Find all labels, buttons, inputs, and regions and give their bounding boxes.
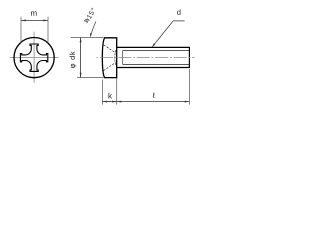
extension line dk top <box>71 37 104 39</box>
arrowhead k right <box>112 101 117 103</box>
text label m <box>31 11 37 15</box>
tiny CJK 'yaku' glyph <box>84 18 90 24</box>
thread root top <box>123 50 190 52</box>
arrowhead k left <box>103 101 108 103</box>
thread root bottom <box>123 64 190 66</box>
arrowhead dk top <box>80 38 82 43</box>
leader line 15deg <box>91 22 96 37</box>
hidden recess line lower <box>104 63 116 71</box>
arrowhead 15deg leader <box>90 33 92 37</box>
text label d <box>177 9 180 15</box>
shank top outline <box>117 46 190 48</box>
label approx 15 degrees <box>84 7 96 37</box>
arrowhead m right <box>43 19 48 21</box>
arrowhead l left <box>117 101 122 103</box>
extension line k left <box>101 80 103 105</box>
label d (thread diameter) <box>152 9 185 47</box>
extension line m left <box>20 17 22 43</box>
head outline circle (front view) <box>14 38 54 78</box>
extension line m right <box>47 17 49 43</box>
arrowhead d leader <box>152 43 155 47</box>
arrowhead m left <box>21 19 26 21</box>
dimension line k <box>102 101 116 103</box>
wire horizontal centerline (front view) <box>10 57 59 59</box>
shank end line <box>188 47 190 68</box>
side view shank <box>96 47 195 68</box>
thread start line <box>122 51 124 65</box>
text label phi-dk (rotated) <box>69 51 76 68</box>
front view of pan head <box>10 32 59 83</box>
dimension line l <box>117 101 190 103</box>
text label k <box>109 93 112 99</box>
extension line k right / bearing face <box>116 78 118 105</box>
text 15 degrees glyphs <box>86 7 95 19</box>
extension line dk bottom <box>77 77 104 79</box>
wire vertical centerline (front view) <box>33 32 35 83</box>
hidden recess tip arc <box>115 50 116 65</box>
dimension line phi-dk <box>80 38 82 78</box>
dimension line m <box>21 19 48 21</box>
arrowhead l right <box>185 101 190 103</box>
dimension l (screw length) <box>117 69 190 105</box>
side view head <box>102 38 116 78</box>
text label l (script ell) <box>153 93 155 98</box>
hidden recess line upper <box>104 45 116 53</box>
leader line d <box>152 21 184 47</box>
arrowhead dk bottom <box>80 73 82 78</box>
dimension k (head height) <box>102 78 116 105</box>
phillips recess cross <box>20 44 47 71</box>
shank bottom outline <box>117 67 190 69</box>
extension line l right <box>188 69 190 105</box>
text label approx-15deg (rotated) <box>84 7 96 23</box>
dimension phi-dk (head diameter) <box>69 38 103 78</box>
dimension m (recess diameter) <box>21 11 48 43</box>
head outline (side view) <box>102 38 116 78</box>
axis centerline <box>96 57 195 59</box>
